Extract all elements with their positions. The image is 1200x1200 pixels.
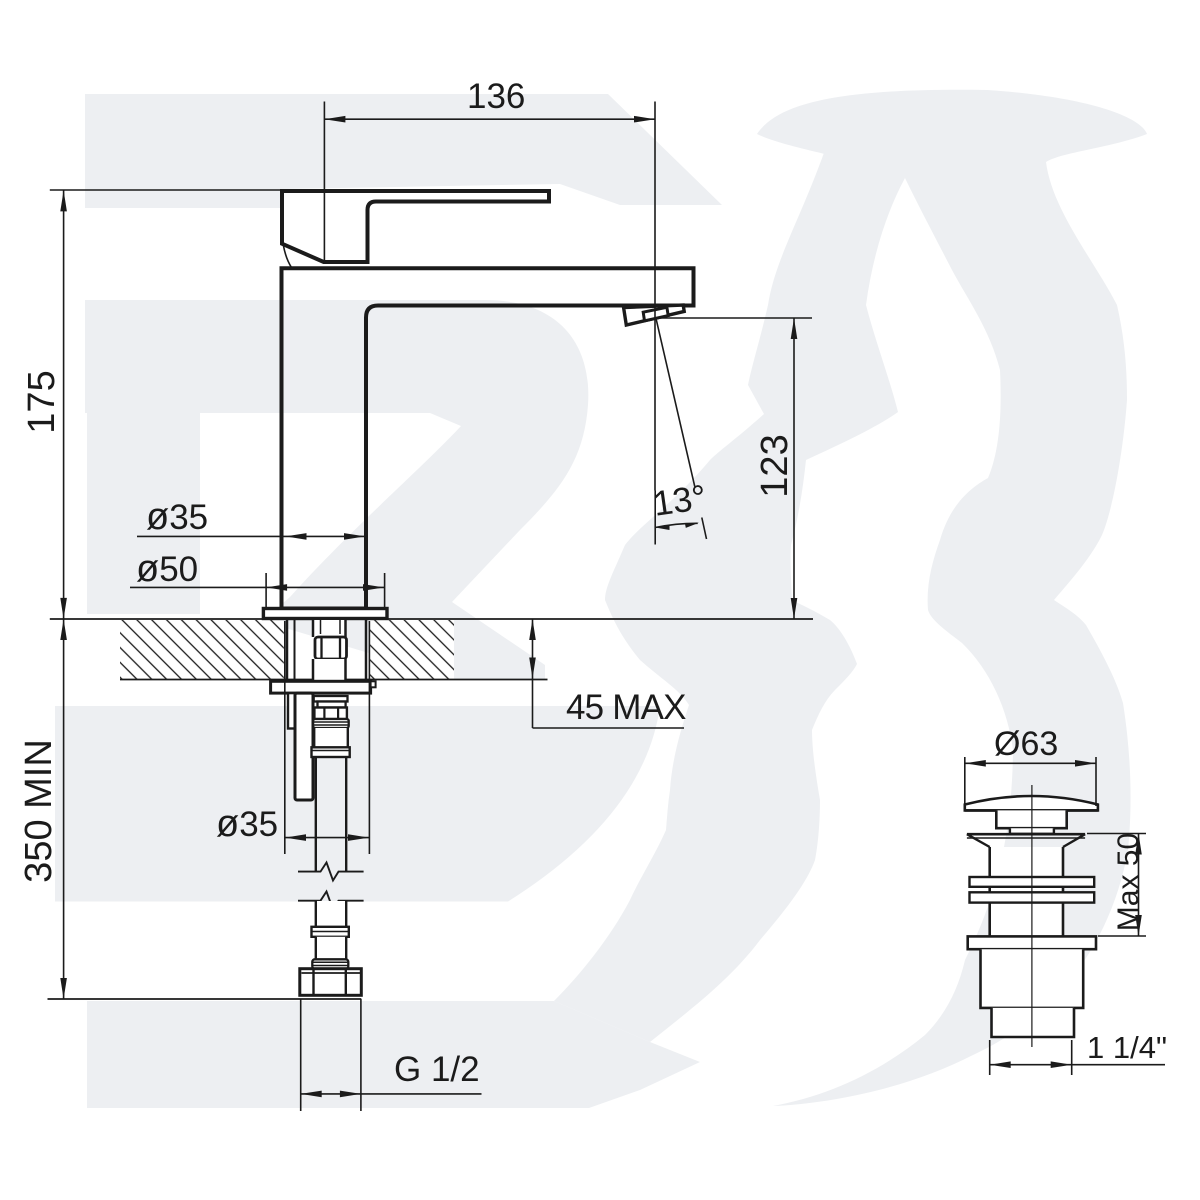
dim 45 MAX <box>529 619 684 728</box>
dim 123 <box>656 318 812 619</box>
drain body tube <box>990 847 1063 936</box>
svg-text:ø35: ø35 <box>146 496 208 538</box>
shank hex nut <box>315 637 347 659</box>
countertop hatched slab left <box>120 620 284 679</box>
flange tab <box>371 681 376 687</box>
drain centerline <box>1031 785 1033 1047</box>
dim dia35 upper <box>137 533 365 540</box>
watermark logo outer ribbon <box>757 90 1147 1106</box>
svg-text:G 1/2: G 1/2 <box>394 1050 480 1089</box>
svg-text:350 MIN: 350 MIN <box>18 739 60 883</box>
hose hex <box>314 708 347 720</box>
ridged collar above nut <box>312 959 348 968</box>
hose ridged collar <box>313 719 349 728</box>
base plate <box>263 609 387 619</box>
drain bottom flange <box>968 936 1096 949</box>
mounting flange under counter <box>271 681 371 693</box>
WATERMARK <box>55 90 1147 1108</box>
countertop bottom surface line <box>120 679 548 681</box>
drain cap neck <box>996 810 1066 828</box>
watermark logo bottom band <box>87 1001 700 1108</box>
faucet handle lever <box>282 191 549 262</box>
drain ring 1 <box>970 877 1095 887</box>
drain top flange <box>967 833 1085 836</box>
watermark logo inner ribbon double chevron <box>554 150 905 1042</box>
svg-text:ø50: ø50 <box>136 548 198 590</box>
aerator insert <box>643 307 668 321</box>
right shank outer line <box>365 620 368 681</box>
pipe collar lower <box>312 927 349 937</box>
aerator outer <box>624 305 685 325</box>
drain cap dome <box>965 796 1098 810</box>
svg-text:ø35: ø35 <box>216 803 278 845</box>
shank tube above nut <box>313 620 346 637</box>
hose collar <box>312 747 350 757</box>
svg-text:123: 123 <box>754 434 796 497</box>
dim Max 50 <box>1087 834 1146 937</box>
dim 1 1/4 inch <box>990 1040 1165 1075</box>
svg-text:175: 175 <box>21 370 63 433</box>
svg-text:Ø63: Ø63 <box>994 725 1058 763</box>
svg-text:13°: 13° <box>651 478 709 524</box>
watermark logo middle bar with bend and sw diagonal <box>85 300 588 679</box>
drain tail <box>992 1008 1075 1037</box>
dim dia50 <box>130 573 385 607</box>
drain ring 2 <box>970 892 1095 902</box>
dim 13 degrees <box>655 318 706 545</box>
hose connector neck <box>318 702 346 708</box>
hose connector top <box>314 696 348 702</box>
countertop top surface line <box>50 618 813 620</box>
pipe below break <box>316 901 346 927</box>
shank below nut <box>313 659 346 681</box>
dim 136 <box>324 102 655 491</box>
pipe break upper <box>298 863 364 881</box>
hose tube long <box>315 757 317 871</box>
pipe stub <box>316 937 346 960</box>
watermark logo lower-left slab <box>55 706 660 902</box>
svg-text:Max 50: Max 50 <box>1112 833 1145 931</box>
shank left inner line <box>294 620 296 681</box>
dim dia63 <box>965 757 1096 806</box>
handle pivot arc <box>284 246 292 268</box>
dim 175 <box>50 190 282 619</box>
drain step <box>1010 828 1054 834</box>
watermark logo left column <box>87 400 200 614</box>
bracket stud short <box>288 693 295 728</box>
hose tube upper <box>314 728 348 747</box>
svg-text:45 MAX: 45 MAX <box>566 688 686 727</box>
bracket stud long <box>295 693 313 800</box>
watermark logo top bar <box>85 94 722 208</box>
G12 nut <box>300 969 362 996</box>
dim dia35 lower <box>285 621 370 854</box>
svg-text:1 1/4": 1 1/4" <box>1087 1030 1167 1065</box>
dim G 1/2 <box>301 999 482 1111</box>
pipe break lower <box>298 892 364 910</box>
dim 350 MIN <box>60 619 67 999</box>
DIMENSIONS <box>50 102 1165 1112</box>
svg-text:136: 136 <box>467 77 525 116</box>
countertop hatched slab right <box>369 620 454 679</box>
shank left outer line <box>286 620 289 681</box>
drain lower body <box>981 949 1084 1008</box>
faucet body and spout <box>282 268 694 608</box>
lower datum line <box>48 998 362 1000</box>
